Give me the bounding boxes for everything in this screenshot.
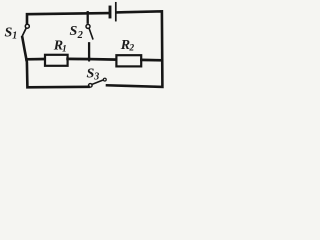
node junction of S2 branch and middle branch bbox=[88, 58, 90, 61]
wire left side bbox=[22, 37, 88, 87]
battery positive plate (long) bbox=[115, 3, 117, 21]
wire middle branch right bbox=[141, 59, 161, 62]
switch S1 blade bbox=[22, 29, 26, 37]
resistor R2 box bbox=[116, 55, 141, 66]
battery negative plate (short) bbox=[109, 7, 112, 17]
wire middle branch left bbox=[27, 58, 45, 61]
resistor R1 box bbox=[45, 55, 68, 66]
wire top-right segment and right side bbox=[107, 11, 162, 87]
wire top-left segment bbox=[27, 13, 109, 23]
wire middle branch between R1 and junction bbox=[68, 58, 89, 61]
switch S3 blade bbox=[92, 80, 103, 84]
switch S1 contact circle bbox=[25, 24, 29, 28]
switch S2 lower stub wire bbox=[88, 43, 90, 59]
switch S3 blade end hook bbox=[103, 78, 106, 81]
switch S3 contact circle bbox=[89, 84, 93, 88]
switch S2 upper stub wire bbox=[87, 12, 89, 22]
wire middle branch between junction and R2 bbox=[89, 58, 116, 61]
switch S2 blade bbox=[89, 29, 93, 39]
switch S2 contact circle bbox=[86, 24, 90, 28]
